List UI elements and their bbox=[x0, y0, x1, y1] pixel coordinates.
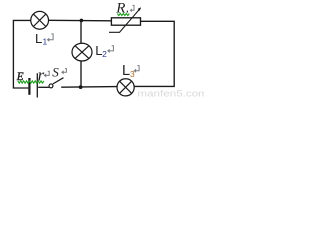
svg-text:L: L bbox=[35, 31, 42, 46]
svg-text:2: 2 bbox=[102, 49, 107, 59]
svg-text:manfen5.com: manfen5.com bbox=[137, 88, 204, 99]
svg-text:1: 1 bbox=[43, 37, 48, 47]
svg-text:S: S bbox=[52, 64, 59, 79]
svg-text:L: L bbox=[122, 63, 130, 79]
